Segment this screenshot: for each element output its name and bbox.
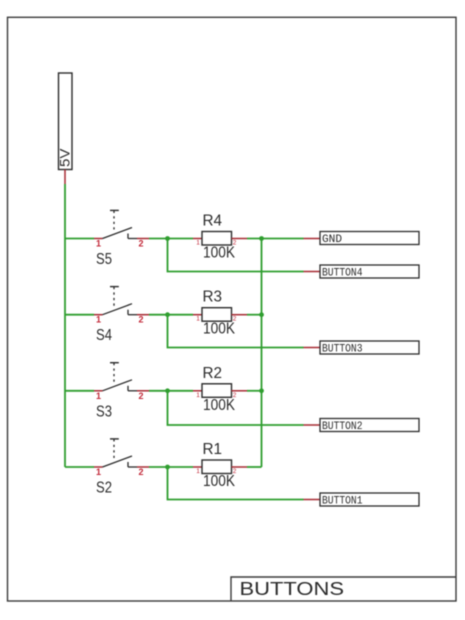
svg-text:S5: S5 (96, 251, 112, 268)
svg-text:2: 2 (138, 239, 143, 249)
svg-text:1: 1 (196, 316, 200, 323)
wire row2 right (247, 314, 262, 316)
node row2 junction (165, 312, 170, 317)
svg-text:100K: 100K (203, 473, 236, 490)
wire row1 left (65, 238, 94, 240)
wire BUTTON4 branch (168, 239, 304, 272)
svg-text:GND: GND (322, 234, 342, 246)
svg-text:1: 1 (96, 315, 101, 325)
svg-text:BUTTON1: BUTTON1 (322, 495, 363, 507)
wire BUTTON3 branch (168, 315, 304, 348)
node bus row1 (259, 236, 264, 241)
svg-text:1: 1 (96, 467, 101, 477)
svg-text:1: 1 (96, 391, 101, 401)
svg-text:S4: S4 (96, 327, 112, 344)
svg-text:BUTTON2: BUTTON2 (322, 421, 363, 433)
wire BUTTON3 stub (304, 347, 321, 349)
wire BUTTON1 branch (168, 467, 304, 500)
switch S4 (94, 287, 149, 315)
svg-text:100K: 100K (203, 321, 236, 338)
resistor R1 (193, 460, 247, 474)
node row1 junction (165, 236, 170, 241)
power symbol 5V (58, 73, 73, 170)
svg-text:BUTTON3: BUTTON3 (322, 343, 363, 355)
svg-text:1: 1 (196, 392, 200, 399)
net label BUTTON2 (320, 419, 419, 433)
wire row3 left (65, 390, 94, 392)
resistor R3 (193, 308, 247, 322)
svg-text:R3: R3 (203, 289, 223, 306)
svg-text:R2: R2 (203, 365, 223, 382)
switch S3 (94, 363, 149, 391)
title block (231, 577, 456, 601)
net label BUTTON3 (320, 341, 419, 355)
svg-text:5V: 5V (58, 149, 73, 168)
node row4 junction (165, 465, 170, 470)
wire row2 mid (149, 314, 193, 316)
wire row1 right (247, 238, 304, 240)
wire row3 right (247, 390, 262, 392)
svg-text:BUTTONS: BUTTONS (240, 579, 345, 599)
net label BUTTON4 (320, 265, 419, 279)
wire BUTTON2 branch (168, 391, 304, 425)
wire row2 left (65, 314, 94, 316)
svg-text:100K: 100K (203, 397, 236, 414)
wire row4 right (247, 466, 262, 468)
net label GND (320, 232, 419, 247)
wire GND stub (304, 238, 321, 240)
resistor R2 (193, 384, 247, 398)
resistor R4 (193, 232, 247, 246)
wire row4 left (65, 466, 94, 468)
switch S5 (94, 210, 149, 238)
wire BUTTON4 stub (304, 271, 321, 273)
svg-text:1: 1 (96, 239, 101, 249)
svg-text:1: 1 (196, 468, 200, 475)
wire 5V bus vertical (64, 184, 66, 467)
svg-text:S2: S2 (96, 480, 112, 497)
svg-text:2: 2 (138, 391, 143, 401)
wire row4 mid (149, 466, 193, 468)
switch S2 (94, 439, 149, 467)
wire row3 mid (149, 390, 193, 392)
wire BUTTON2 stub (304, 424, 321, 426)
wire row1 mid (149, 238, 193, 240)
svg-text:R4: R4 (203, 213, 223, 230)
wire BUTTON1 stub (304, 499, 321, 501)
svg-text:S3: S3 (96, 403, 112, 420)
svg-text:BUTTON4: BUTTON4 (322, 267, 363, 279)
svg-text:100K: 100K (203, 245, 236, 262)
svg-text:R1: R1 (203, 441, 223, 458)
node bus row2 (259, 312, 264, 317)
svg-text:2: 2 (138, 467, 143, 477)
pin of 5V (64, 170, 66, 185)
svg-text:2: 2 (138, 315, 143, 325)
node row3 junction (165, 388, 170, 393)
wire bus right vertical (261, 239, 263, 468)
node bus row3 (259, 388, 264, 393)
net label BUTTON1 (320, 493, 419, 507)
svg-text:1: 1 (196, 240, 200, 247)
